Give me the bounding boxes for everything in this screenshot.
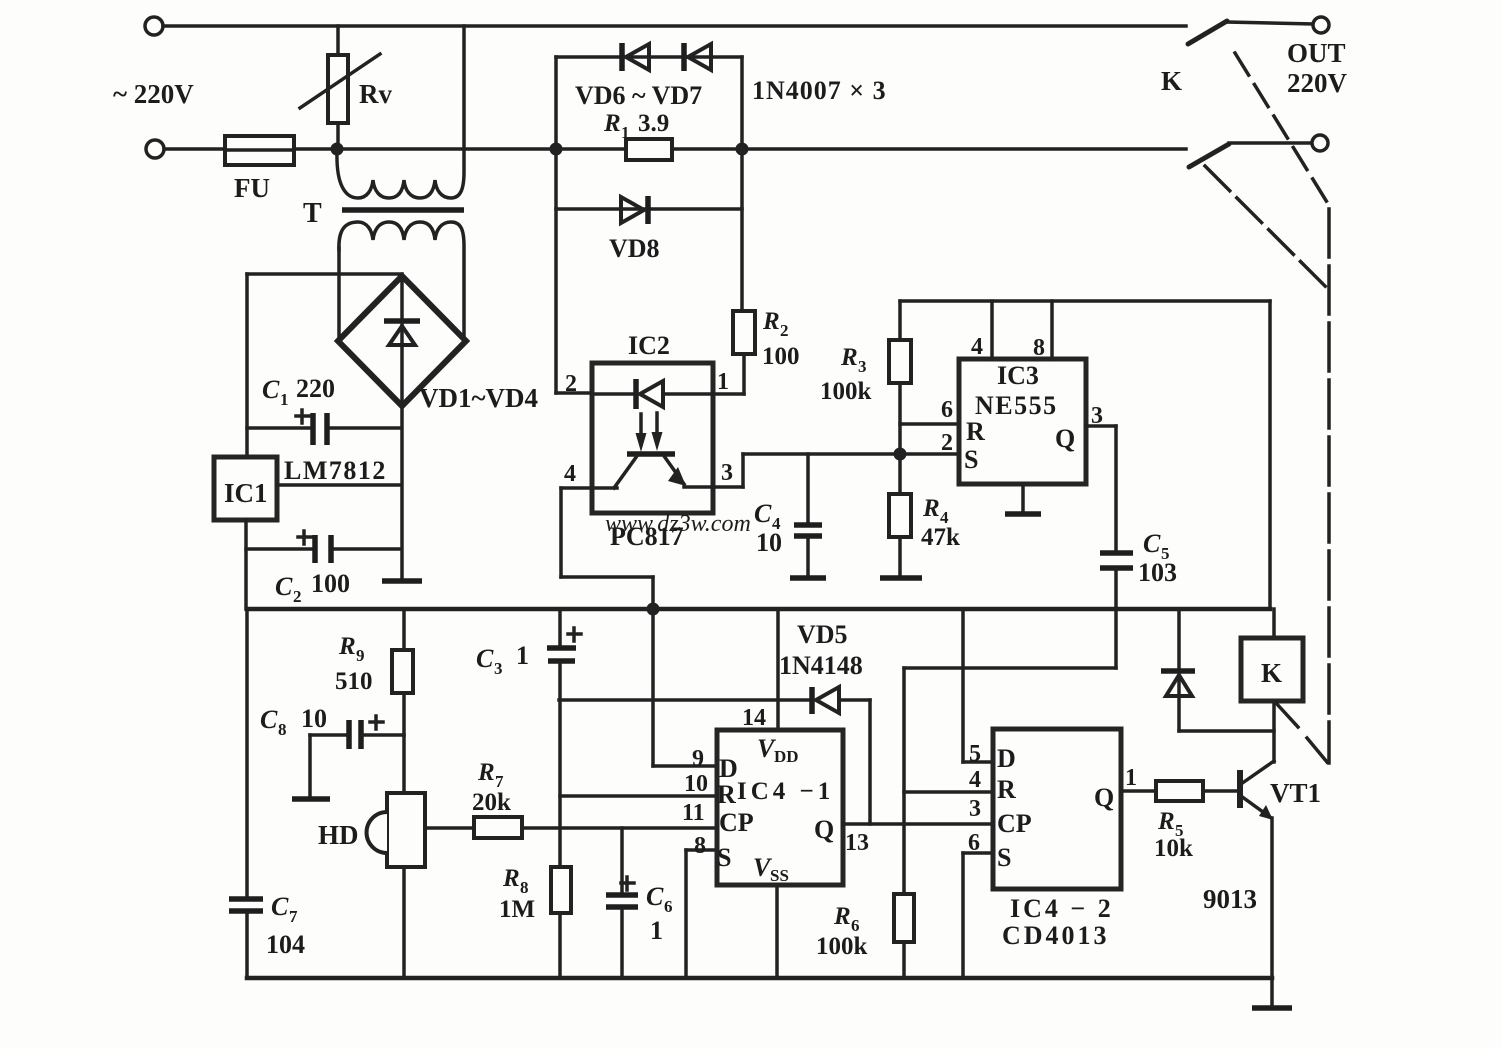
svg-text:C: C xyxy=(754,499,772,528)
svg-text:R: R xyxy=(717,780,736,809)
svg-text:www.dz3w.com: www.dz3w.com xyxy=(605,511,751,537)
svg-text:9: 9 xyxy=(692,746,704,772)
svg-text:S: S xyxy=(964,445,978,474)
svg-text:220V: 220V xyxy=(1287,68,1348,98)
svg-text:R: R xyxy=(477,759,495,786)
svg-text:DD: DD xyxy=(774,747,799,766)
svg-text:R: R xyxy=(922,495,940,522)
svg-text:SS: SS xyxy=(770,866,789,885)
svg-text:5: 5 xyxy=(969,741,981,767)
svg-text:Q: Q xyxy=(1055,424,1075,453)
svg-text:1: 1 xyxy=(516,641,529,670)
svg-text:3: 3 xyxy=(858,357,867,376)
svg-text:C: C xyxy=(476,644,494,673)
svg-text:R: R xyxy=(840,344,858,371)
svg-text:10: 10 xyxy=(301,704,327,733)
svg-text:IC2: IC2 xyxy=(628,331,670,360)
svg-text:3: 3 xyxy=(494,659,503,678)
svg-text:D: D xyxy=(997,744,1016,773)
svg-text:C: C xyxy=(275,572,293,601)
svg-text:10k: 10k xyxy=(1154,835,1193,862)
svg-text:2: 2 xyxy=(941,430,953,456)
svg-text:3: 3 xyxy=(721,460,733,486)
svg-text:CD4013: CD4013 xyxy=(1002,921,1110,950)
svg-text:1N4148: 1N4148 xyxy=(779,651,863,680)
svg-text:C: C xyxy=(260,705,278,734)
svg-text:11: 11 xyxy=(682,800,705,826)
svg-text:8: 8 xyxy=(694,833,706,859)
svg-text:IC4 − 2: IC4 − 2 xyxy=(1010,894,1114,923)
svg-text:100k: 100k xyxy=(816,933,868,960)
svg-text:8: 8 xyxy=(278,720,287,739)
svg-text:47k: 47k xyxy=(921,524,960,551)
svg-text:103: 103 xyxy=(1138,558,1177,587)
svg-text:8: 8 xyxy=(1033,335,1045,361)
svg-text:Rv: Rv xyxy=(359,79,392,109)
svg-text:2: 2 xyxy=(293,587,302,606)
svg-text:1: 1 xyxy=(717,369,729,395)
svg-text:R: R xyxy=(833,903,851,930)
svg-text:C: C xyxy=(1143,529,1161,558)
svg-text:2: 2 xyxy=(780,321,789,340)
svg-text:R: R xyxy=(603,110,621,137)
svg-text:3.9: 3.9 xyxy=(638,110,669,137)
svg-text:CP: CP xyxy=(719,808,754,837)
svg-text:7: 7 xyxy=(289,907,298,926)
svg-text:C: C xyxy=(262,375,280,404)
svg-text:K: K xyxy=(1261,658,1282,688)
svg-text:14: 14 xyxy=(742,705,766,731)
svg-text:R: R xyxy=(966,417,985,446)
svg-text:T: T xyxy=(303,198,322,229)
svg-text:D: D xyxy=(719,754,738,783)
svg-text:100: 100 xyxy=(762,343,800,370)
svg-text:R: R xyxy=(1157,808,1175,835)
svg-text:3: 3 xyxy=(969,796,981,822)
svg-text:104: 104 xyxy=(266,930,305,959)
svg-text:IC4 −1: IC4 −1 xyxy=(737,778,834,805)
svg-text:~ 220V: ~ 220V xyxy=(113,79,194,109)
svg-text:6: 6 xyxy=(968,830,980,856)
svg-text:HD: HD xyxy=(318,820,359,850)
svg-text:100k: 100k xyxy=(820,378,872,405)
svg-text:C: C xyxy=(271,892,289,921)
svg-text:1: 1 xyxy=(650,916,663,945)
svg-text:K: K xyxy=(1161,66,1182,96)
svg-text:FU: FU xyxy=(234,173,270,203)
svg-text:10: 10 xyxy=(756,528,782,557)
svg-text:IC1: IC1 xyxy=(224,478,268,508)
svg-text:S: S xyxy=(717,843,731,872)
svg-text:IC3: IC3 xyxy=(997,361,1039,390)
svg-text:Q: Q xyxy=(814,815,834,844)
svg-text:9013: 9013 xyxy=(1203,884,1257,914)
svg-text:8: 8 xyxy=(520,878,529,897)
svg-text:OUT: OUT xyxy=(1287,38,1346,68)
svg-text:S: S xyxy=(997,843,1011,872)
svg-text:1: 1 xyxy=(1125,765,1137,791)
svg-text:1: 1 xyxy=(280,390,289,409)
svg-text:4: 4 xyxy=(564,461,576,487)
svg-text:VD8: VD8 xyxy=(609,234,660,263)
svg-text:R: R xyxy=(997,775,1016,804)
svg-text:R: R xyxy=(502,865,520,892)
svg-text:9: 9 xyxy=(356,646,365,665)
svg-text:1N4007 × 3: 1N4007 × 3 xyxy=(752,76,887,105)
svg-text:C: C xyxy=(646,882,664,911)
svg-text:R: R xyxy=(762,308,780,335)
svg-text:VT1: VT1 xyxy=(1270,778,1321,808)
svg-text:4: 4 xyxy=(969,767,981,793)
svg-text:100: 100 xyxy=(311,569,350,598)
svg-text:4: 4 xyxy=(971,334,983,360)
svg-text:VD6 ~ VD7: VD6 ~ VD7 xyxy=(575,81,702,110)
svg-text:Q: Q xyxy=(1094,783,1114,812)
svg-text:220: 220 xyxy=(296,374,335,403)
svg-text:6: 6 xyxy=(664,897,673,916)
svg-text:10: 10 xyxy=(684,771,708,797)
svg-text:VD5: VD5 xyxy=(797,620,848,649)
svg-text:6: 6 xyxy=(941,397,953,423)
svg-text:13: 13 xyxy=(845,830,869,856)
svg-text:R: R xyxy=(338,633,356,660)
svg-text:20k: 20k xyxy=(472,789,511,816)
svg-text:NE555: NE555 xyxy=(975,391,1058,420)
svg-text:1M: 1M xyxy=(499,896,535,923)
svg-text:CP: CP xyxy=(997,809,1032,838)
svg-text:510: 510 xyxy=(335,668,373,695)
svg-text:VD1~VD4: VD1~VD4 xyxy=(419,383,538,413)
svg-text:LM7812: LM7812 xyxy=(284,456,387,485)
